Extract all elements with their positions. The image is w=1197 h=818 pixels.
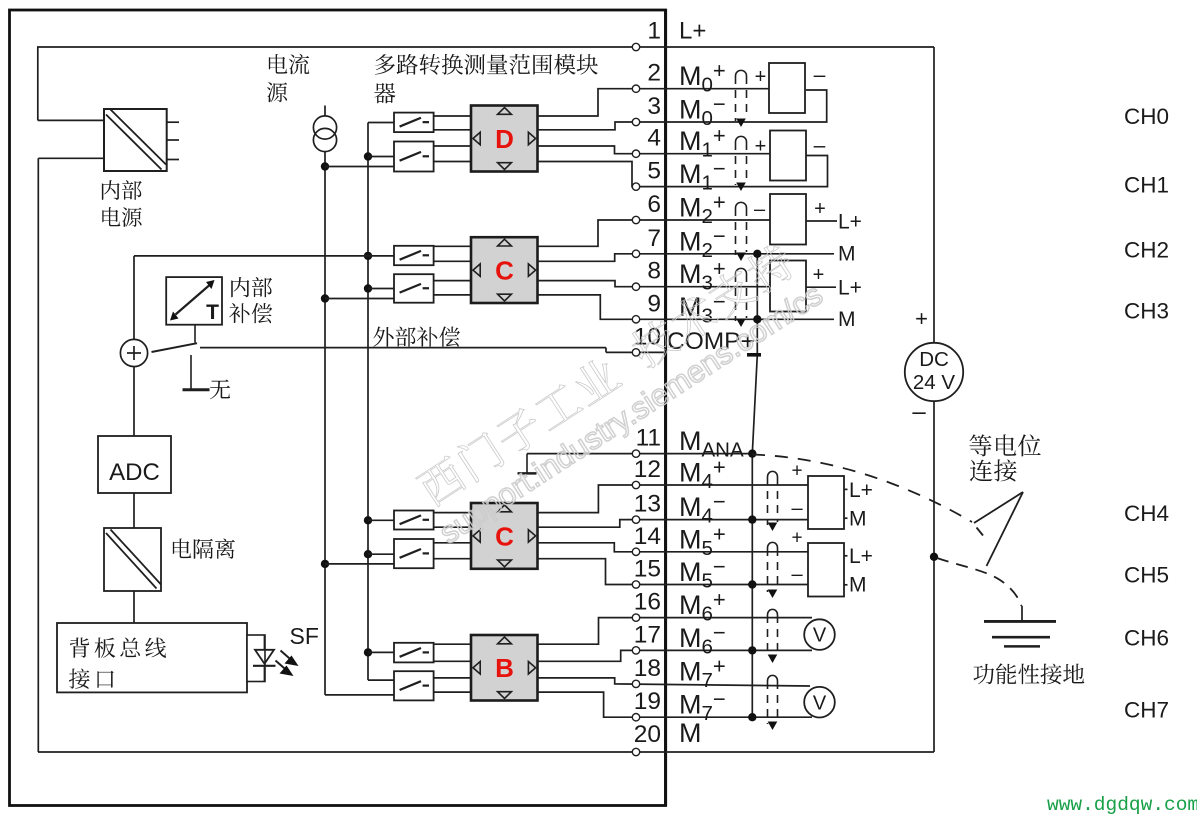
node bus368-C2b	[364, 550, 372, 558]
label CH1	[1124, 173, 1169, 198]
sensor CH4 polarity	[791, 461, 803, 520]
power supply pins	[167, 122, 179, 159]
svg-text:M: M	[849, 574, 867, 597]
svg-text:6: 6	[647, 191, 661, 218]
svg-text:+: +	[814, 198, 826, 220]
sensor CH0 box	[769, 63, 805, 113]
dashed bond wire B	[937, 558, 1022, 606]
shield CH7	[768, 675, 778, 730]
terminal 4 number	[647, 125, 661, 152]
shield CH1	[736, 136, 747, 191]
wire mux B to terminal 16	[538, 618, 813, 645]
DC 24V polarity	[912, 306, 928, 426]
svg-text:L+: L+	[838, 277, 862, 300]
svg-text:support.industry.siemens.com/c: support.industry.siemens.com/cs	[433, 277, 829, 551]
svg-text:7: 7	[647, 225, 661, 252]
wire bus325 to switch C1b	[325, 298, 394, 300]
label 多路转换测量范围模块器	[374, 54, 598, 103]
terminal 17 label	[679, 620, 726, 659]
shield CH6	[768, 609, 778, 663]
svg-text:V: V	[813, 625, 827, 647]
terminal 16 pin circle	[632, 614, 639, 621]
svg-text:+: +	[915, 306, 928, 331]
switch S6 (C2 lower)	[394, 539, 434, 568]
svg-text:L+: L+	[849, 545, 873, 568]
isolation box U4	[104, 528, 161, 591]
terminal 7 pin circle	[632, 250, 639, 257]
shield CH5	[768, 542, 778, 598]
wire bus368 to switch D2	[368, 156, 394, 158]
node bus325-D2	[321, 162, 329, 170]
label 等电位连接	[969, 434, 1040, 481]
svg-text:–: –	[754, 199, 766, 221]
label CH2 M	[838, 243, 856, 266]
terminal 5 number	[647, 158, 661, 185]
functional earth	[984, 606, 1056, 646]
wire summing to ADC	[133, 367, 135, 436]
node bus368-C1a	[364, 252, 372, 260]
sensor CH1 box	[770, 131, 806, 181]
svg-text:1: 1	[647, 18, 661, 45]
wire L+ right rail	[933, 47, 935, 343]
sensor CH4 box	[808, 476, 844, 529]
terminal 1 label	[679, 18, 706, 45]
current source I1	[313, 106, 336, 167]
wire L+ rail (terminal 1)	[37, 46, 934, 48]
label CH4	[1124, 501, 1169, 526]
wires switches to mux B	[434, 644, 471, 692]
wire bus325 to switch D2	[325, 166, 394, 168]
wire mux D to terminal 3	[538, 90, 827, 130]
svg-text:CH2: CH2	[1124, 238, 1169, 263]
node bus368-C1b	[364, 284, 372, 292]
LED arrows	[276, 651, 299, 677]
wires switches to mux C1	[434, 246, 471, 295]
wire mux C2 to terminal 12	[538, 485, 809, 513]
svg-text:15: 15	[634, 556, 661, 583]
summing point + circle	[120, 339, 147, 366]
svg-text:–: –	[814, 134, 826, 157]
node M bus t19	[748, 713, 756, 721]
terminal 2 pin circle	[632, 85, 639, 92]
wire mux D to terminal 2	[538, 89, 771, 116]
sensor CH5 L+ pin	[844, 545, 873, 568]
terminal 20 number	[634, 721, 661, 748]
svg-text:+: +	[755, 136, 767, 158]
terminal 15 label	[679, 554, 726, 593]
DC 24V source BT1	[905, 343, 963, 401]
svg-text:20: 20	[634, 721, 661, 748]
svg-text:M: M	[838, 243, 856, 266]
shield CH2	[736, 202, 747, 261]
terminal 7 number	[647, 225, 661, 252]
terminal 16 number	[634, 589, 661, 616]
wires switches to mux C2	[434, 513, 471, 559]
terminal 18 pin circle	[632, 680, 639, 687]
wire mux C2 to terminal 14	[538, 543, 809, 552]
svg-text:CH1: CH1	[1124, 173, 1169, 198]
sensor CH4 L+ pin	[844, 479, 873, 502]
svg-text:CH7: CH7	[1124, 698, 1169, 723]
compensation switch SW1	[152, 343, 198, 352]
svg-text:+: +	[791, 461, 802, 482]
mux range module B (U9)	[471, 635, 538, 701]
mux range module D (U6)	[471, 106, 538, 172]
switch S3 (C upper)	[394, 246, 434, 265]
label CH7	[1124, 698, 1169, 723]
switch S2 (D lower)	[394, 142, 434, 172]
mux range module C2 (U8)	[471, 503, 538, 569]
terminal 20 pin circle	[632, 748, 639, 755]
shield CH0	[736, 70, 747, 127]
wire bus current-source (x325)	[325, 167, 394, 695]
wire mux C to terminal 8	[538, 281, 771, 287]
T compensation box U2	[166, 277, 222, 342]
terminal 2 number	[647, 60, 661, 87]
svg-text:+: +	[813, 264, 825, 286]
terminal 14 pin circle	[632, 548, 639, 555]
wire bus368 to switch C2b	[368, 553, 394, 555]
terminal 2 label	[679, 58, 726, 97]
analog ground	[518, 454, 537, 474]
node bus325-C2b	[321, 560, 329, 568]
svg-text:T: T	[206, 301, 219, 324]
sensor CH2 box	[770, 194, 806, 245]
node M bus t7	[753, 250, 761, 258]
svg-text:SF: SF	[290, 623, 319, 649]
sensor CH5 polarity	[791, 528, 803, 586]
terminal 18 number	[634, 655, 661, 682]
wire isolation to backplane	[133, 591, 135, 623]
svg-text:–: –	[791, 564, 803, 586]
module outer frame	[10, 10, 666, 806]
watermark	[406, 235, 828, 550]
svg-text:+: +	[791, 528, 802, 549]
svg-text:8: 8	[647, 258, 661, 285]
terminal 6 number	[647, 191, 661, 218]
terminal 8 label	[679, 256, 726, 295]
svg-text:C: C	[495, 256, 514, 286]
terminal 12 number	[634, 456, 661, 483]
svg-text:+: +	[755, 66, 767, 88]
svg-text:CH4: CH4	[1124, 501, 1169, 526]
terminal 11 label	[679, 426, 744, 462]
terminal 12 label	[679, 455, 726, 494]
terminal 15 number	[634, 556, 661, 583]
node bus325-C1b	[321, 294, 329, 302]
terminal 8 number	[647, 258, 661, 285]
svg-text:19: 19	[634, 688, 661, 715]
switch S8 (B lower)	[394, 671, 434, 700]
power supply U1 (internal supply)	[104, 109, 167, 171]
site url	[1047, 794, 1197, 816]
wire summing-amp to bus368	[134, 256, 394, 340]
terminal 11 number	[636, 425, 661, 452]
switch S7 (B upper)	[394, 643, 434, 663]
node equipotential tap	[930, 553, 938, 561]
sensor CH3 polarity	[813, 264, 825, 286]
label CH2	[1124, 238, 1169, 263]
svg-text:4: 4	[647, 125, 661, 152]
terminal 15 pin circle	[632, 581, 639, 588]
terminal 17 pin circle	[632, 647, 639, 654]
svg-text:CH5: CH5	[1124, 563, 1169, 588]
label 无	[210, 379, 230, 399]
svg-text:MANA: MANA	[679, 426, 744, 462]
dashed bond wire A	[752, 455, 972, 523]
switch S1 (D upper)	[394, 113, 434, 133]
backplane bus box U5	[57, 623, 247, 692]
label 内部补偿	[229, 277, 272, 323]
terminal 14 number	[634, 523, 661, 550]
wire bus368 to switch C2a	[368, 519, 394, 521]
terminal 10 pin circle	[632, 349, 639, 356]
terminal 1 number	[647, 18, 661, 45]
node bus368-C2a	[364, 516, 372, 524]
terminal 20 label	[679, 718, 702, 748]
label CH3	[1124, 299, 1169, 324]
svg-text:18: 18	[634, 655, 661, 682]
wire mux B to terminal 19	[538, 692, 813, 717]
terminal strip line (module right edge)	[664, 9, 667, 807]
terminal 18 label	[679, 653, 726, 692]
label 外部补偿	[373, 327, 460, 347]
sensor CH0 polarity	[755, 64, 826, 89]
svg-text:D: D	[495, 124, 514, 154]
wire M right rail	[933, 401, 935, 752]
voltmeter V2 (CH7)	[804, 687, 835, 718]
node M bus t15	[748, 580, 756, 588]
svg-text:3: 3	[647, 93, 661, 120]
svg-text:–: –	[912, 399, 926, 426]
wire bus mux-common (x368)	[368, 123, 394, 681]
svg-text:14: 14	[634, 523, 661, 550]
terminal 4 label	[679, 123, 726, 162]
sensor CH3 box	[770, 261, 806, 312]
terminal 3 number	[647, 93, 661, 120]
svg-text:L+: L+	[838, 211, 862, 234]
svg-text:CH6: CH6	[1124, 626, 1169, 651]
shield CH3	[736, 268, 747, 327]
svg-text:–: –	[814, 64, 826, 87]
terminal 5 label	[679, 156, 726, 195]
svg-text:M2+: M2+	[679, 190, 726, 229]
label 内部电源	[102, 180, 142, 227]
LED SF diode D1	[253, 635, 276, 682]
svg-text:13: 13	[634, 491, 661, 518]
terminal 14 label	[679, 521, 726, 560]
svg-text:–: –	[791, 498, 803, 520]
wire mux C to terminal 7 (M)	[538, 254, 835, 261]
wire mux D to terminal 4	[538, 146, 771, 154]
label 电隔离	[173, 539, 235, 559]
terminal 13 label	[679, 489, 726, 528]
wire mux C to terminal 6	[538, 220, 771, 246]
label CH3 M	[838, 308, 856, 331]
svg-text:9: 9	[647, 290, 661, 317]
terminal 19 number	[634, 688, 661, 715]
terminal 19 label	[679, 687, 726, 726]
sensor CH2 L+ wire	[806, 211, 862, 234]
comp tick	[747, 353, 761, 357]
terminal 19 pin circle	[632, 714, 639, 721]
wire mux B to terminal 17	[538, 650, 813, 661]
wire mux C2 to terminal 13	[538, 520, 809, 528]
wire left rail upper	[38, 47, 104, 120]
wire bus368 to switch C1b	[368, 288, 394, 290]
svg-text:ADC: ADC	[109, 459, 160, 486]
node M bus t9	[753, 315, 761, 323]
svg-text:B: B	[495, 653, 514, 683]
svg-text:24 V: 24 V	[913, 371, 955, 394]
switch S5 (C2 upper)	[394, 511, 434, 530]
svg-text:L+: L+	[679, 18, 706, 45]
LED frame	[247, 635, 265, 682]
terminal 3 pin circle	[632, 118, 639, 125]
label 背板总线接口	[69, 638, 166, 689]
label SF	[290, 623, 319, 649]
svg-text:CH0: CH0	[1124, 104, 1169, 129]
terminal 4 pin circle	[632, 150, 639, 157]
wire left rail lower	[38, 158, 104, 752]
node M bus t13	[748, 515, 756, 523]
terminal 8 pin circle	[632, 283, 639, 290]
wire bus368 to switch Ba	[368, 651, 394, 653]
sensor CH2 polarity	[754, 198, 826, 221]
shield CH4	[768, 471, 778, 531]
svg-text:www.dgdqw.com: www.dgdqw.com	[1047, 794, 1197, 816]
label CH6	[1124, 626, 1169, 651]
voltmeter V1 (CH6)	[804, 619, 835, 650]
wire mux B to terminal 18	[538, 678, 811, 686]
terminal 12 pin circle	[632, 481, 639, 488]
terminal 10 label	[667, 328, 755, 355]
pointer arrow	[974, 492, 1023, 566]
wire ADC to isolation	[133, 493, 135, 528]
no-compensation stub	[183, 355, 210, 390]
svg-text:CH3: CH3	[1124, 299, 1169, 324]
wire mux C2 to terminal 15	[538, 559, 809, 585]
svg-text:17: 17	[634, 621, 661, 648]
sensor CH3 L+ wire	[806, 277, 862, 300]
wire mux D to terminal 5	[538, 156, 828, 187]
terminal 11 pin circle	[632, 450, 639, 457]
ADC box U3	[98, 436, 171, 493]
wire bus325 to switch C2b	[325, 563, 394, 565]
terminal 9 number	[647, 290, 661, 317]
svg-text:2: 2	[647, 60, 661, 87]
terminal 3 label	[679, 92, 726, 131]
terminal 9 label	[679, 289, 726, 328]
wire M bus vertical	[752, 254, 757, 717]
svg-text:L+: L+	[849, 479, 873, 502]
node M bus t17	[748, 646, 756, 654]
terminal 17 number	[634, 621, 661, 648]
wire switch to terminal 10	[200, 348, 665, 353]
sensor CH4 M pin	[844, 508, 867, 531]
terminal 6 pin circle	[632, 216, 639, 223]
svg-text:DC: DC	[919, 348, 949, 371]
svg-text:M: M	[838, 308, 856, 331]
wires switches to mux D	[434, 116, 471, 162]
terminal 10 number	[634, 323, 661, 350]
terminal 16 label	[679, 587, 726, 626]
terminal 7 label	[679, 223, 726, 261]
terminal 9 pin circle	[632, 316, 639, 323]
sensor CH5 M pin	[844, 574, 867, 597]
node bus368-D2	[364, 152, 372, 160]
svg-text:C: C	[495, 521, 514, 551]
sensor CH5 box	[808, 543, 844, 597]
mux range module C (U7)	[471, 237, 538, 303]
wire M rail (terminal 20)	[38, 751, 934, 753]
node M bus t11	[748, 449, 756, 457]
sensor CH1 polarity	[755, 134, 826, 158]
label 功能性接地	[973, 663, 1084, 684]
svg-text:5: 5	[647, 158, 661, 185]
svg-text:16: 16	[634, 589, 661, 616]
label CH5	[1124, 563, 1169, 588]
wire terminal 11 MANA	[527, 453, 752, 455]
svg-text:M: M	[849, 508, 867, 531]
switch S4 (C lower)	[394, 274, 434, 303]
svg-text:V: V	[813, 692, 827, 714]
terminal 6 label	[679, 190, 726, 229]
svg-text:M: M	[679, 718, 702, 748]
label 电流源	[267, 54, 309, 102]
node bus368-Ba	[364, 648, 372, 656]
svg-text:12: 12	[634, 456, 661, 483]
terminal 1 pin circle	[632, 43, 639, 50]
label CH0	[1124, 104, 1169, 129]
terminal 13 pin circle	[632, 516, 639, 523]
terminal 5 pin circle	[632, 183, 639, 190]
terminal 13 number	[634, 491, 661, 518]
wire mux C to terminal 9 (M)	[538, 295, 835, 319]
